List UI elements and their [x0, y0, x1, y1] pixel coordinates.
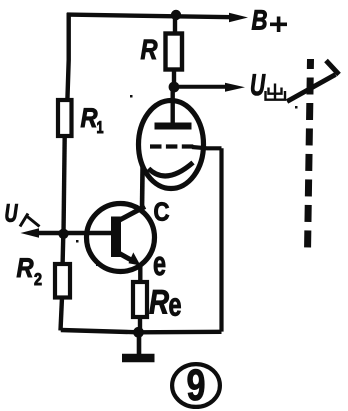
- scan speck: [295, 106, 298, 109]
- svg-text:R: R: [17, 253, 34, 283]
- wire stem from R to U-out node: [172, 70, 176, 88]
- svg-text:e: e: [169, 287, 182, 323]
- wire right rail grid feedback: [219, 148, 223, 331]
- svg-text:R: R: [149, 284, 169, 322]
- wire emitter lead to Re: [138, 264, 142, 282]
- page edge dashed tear line: [308, 59, 311, 252]
- resistor R: [166, 34, 183, 70]
- svg-text:U: U: [5, 200, 19, 228]
- svg-text:C: C: [154, 197, 170, 227]
- wire left rail base node to R2: [60, 234, 65, 264]
- transistor collector stroke: [114, 207, 145, 224]
- ground bar: [122, 354, 155, 363]
- resistor R1: [58, 100, 72, 136]
- wire top horizontal B+ rail: [67, 15, 232, 18]
- node junction dot U-out (anode node): [169, 82, 180, 93]
- wire Re to bottom rail: [138, 317, 142, 332]
- scan speck: [96, 263, 99, 266]
- tube grid dashed line: [150, 144, 194, 148]
- transistor base bar: [111, 217, 121, 258]
- wire left rail R1 to base node: [64, 136, 65, 234]
- wire left rail top section: [67, 13, 68, 100]
- transistor emitter arrow head: [129, 252, 141, 265]
- scan speck: [76, 240, 79, 243]
- op-amp U1 vacuum tube envelope: [139, 101, 204, 189]
- resistor Re: [133, 282, 147, 317]
- svg-text:B: B: [252, 5, 268, 36]
- tube cathode arc: [149, 163, 194, 176]
- wire bottom rail: [61, 330, 222, 332]
- wire cathode lead down to transistor collector: [140, 165, 145, 210]
- svg-text:e: e: [153, 245, 166, 283]
- svg-text:2: 2: [34, 270, 42, 289]
- wire U-out arrow line: [179, 85, 227, 89]
- wire stem from top rail to R: [173, 18, 177, 34]
- figure number circle 9: [172, 364, 220, 407]
- svg-text:R: R: [81, 103, 98, 133]
- scan speck: [172, 111, 174, 113]
- ground stem: [137, 334, 142, 355]
- page edge slash mark: [287, 75, 336, 102]
- wire left rail R2 to bottom corner: [61, 298, 63, 331]
- label chinese chu glyph: [76, 84, 298, 267]
- resistor R2: [55, 264, 70, 298]
- wire grid lead exits right: [192, 147, 222, 148]
- svg-text:R: R: [141, 34, 159, 65]
- label chinese ru glyph: [20, 214, 40, 227]
- node bottom junction dot: [133, 327, 144, 338]
- node junction dot top (B+ rail / R): [171, 10, 181, 20]
- scan speck: [130, 95, 133, 98]
- svg-text:9: 9: [187, 361, 206, 410]
- wire base lead with input arrow: [36, 231, 112, 235]
- wire U-in arrow head: [21, 228, 40, 237]
- transistor emitter stroke: [114, 251, 133, 262]
- wire B+ arrow head: [229, 13, 248, 22]
- node base junction dot: [58, 229, 68, 239]
- wire U-out arrow head: [225, 83, 245, 92]
- tube anode plate bar: [155, 123, 192, 130]
- svg-text:U: U: [250, 69, 266, 102]
- svg-text:1: 1: [97, 118, 104, 137]
- transistor Q1 circle: [87, 204, 155, 272]
- page edge slash tick: [326, 61, 339, 75]
- wire anode stem: [170, 89, 174, 123]
